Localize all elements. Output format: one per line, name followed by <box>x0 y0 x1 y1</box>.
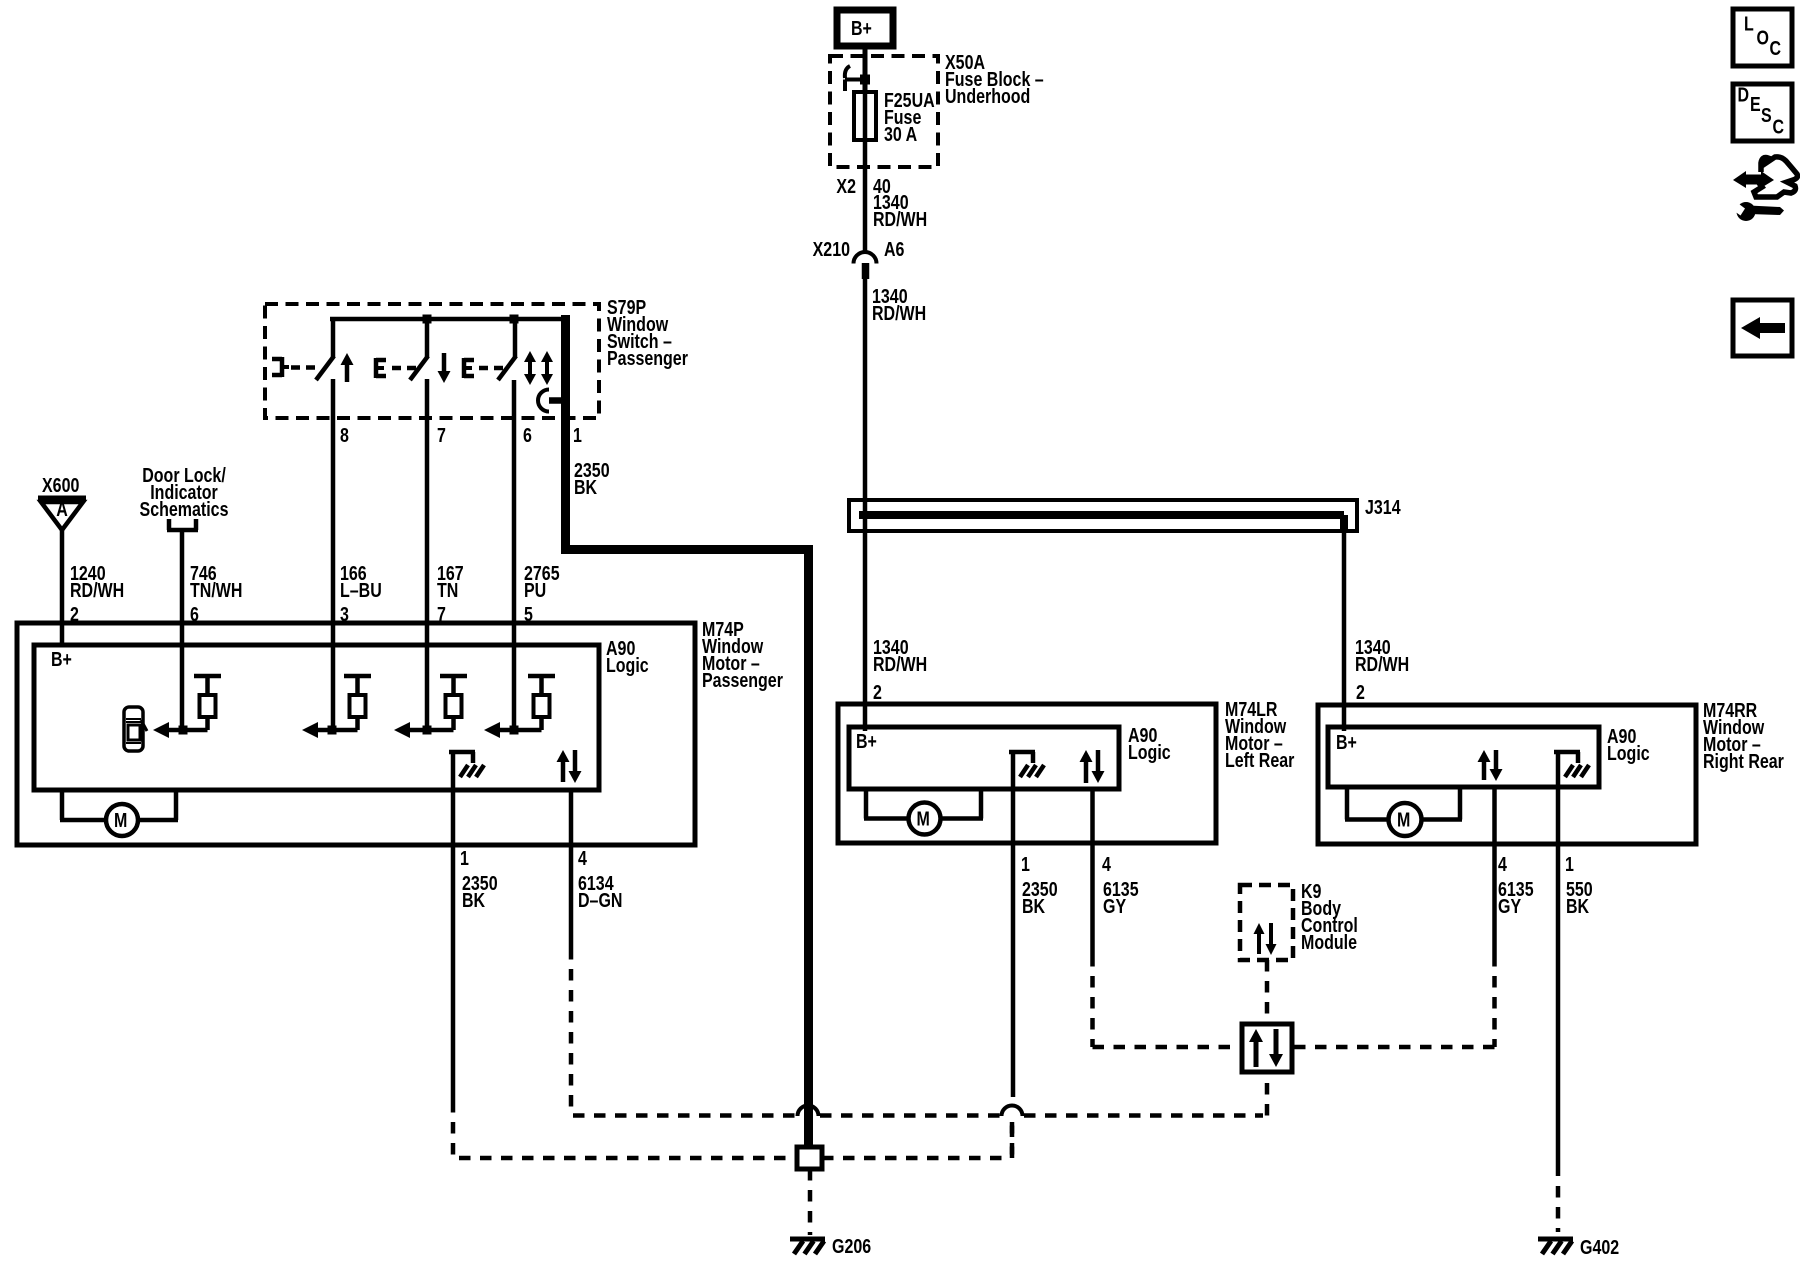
svg-text:RD/WH: RD/WH <box>872 302 926 324</box>
svg-text:4: 4 <box>578 847 587 869</box>
svg-text:1: 1 <box>1565 853 1574 875</box>
svg-text:G206: G206 <box>832 1235 871 1257</box>
svg-text:A: A <box>56 498 68 520</box>
svg-text:GY: GY <box>1498 895 1521 917</box>
svg-text:X2: X2 <box>836 175 856 197</box>
svg-text:Logic: Logic <box>1607 742 1650 764</box>
svg-text:2: 2 <box>1356 681 1365 703</box>
svg-text:J314: J314 <box>1365 496 1401 518</box>
svg-text:C: C <box>1773 116 1785 138</box>
svg-text:B+: B+ <box>851 17 872 39</box>
svg-text:M: M <box>917 808 930 830</box>
svg-text:TN: TN <box>437 579 458 601</box>
svg-text:B+: B+ <box>1336 731 1357 753</box>
svg-text:30 A: 30 A <box>884 123 917 145</box>
svg-text:1: 1 <box>460 847 469 869</box>
svg-text:PU: PU <box>524 579 546 601</box>
svg-text:8: 8 <box>340 424 349 446</box>
svg-text:Right Rear: Right Rear <box>1703 750 1784 772</box>
svg-text:C: C <box>1770 37 1782 59</box>
svg-text:Passenger: Passenger <box>607 347 688 369</box>
svg-text:M: M <box>1397 809 1410 831</box>
svg-text:Underhood: Underhood <box>945 85 1030 107</box>
svg-text:RD/WH: RD/WH <box>873 653 927 675</box>
svg-text:BK: BK <box>1566 895 1589 917</box>
svg-text:L–BU: L–BU <box>340 579 382 601</box>
svg-text:4: 4 <box>1498 853 1507 875</box>
svg-text:S: S <box>1761 104 1772 126</box>
svg-text:RD/WH: RD/WH <box>70 579 124 601</box>
svg-text:Left Rear: Left Rear <box>1225 749 1294 771</box>
svg-text:Module: Module <box>1301 931 1357 953</box>
svg-text:RD/WH: RD/WH <box>1355 653 1409 675</box>
svg-text:G402: G402 <box>1580 1236 1619 1258</box>
svg-text:Schematics: Schematics <box>140 498 229 520</box>
svg-text:Logic: Logic <box>1128 741 1171 763</box>
svg-text:Passenger: Passenger <box>702 669 783 691</box>
svg-text:GY: GY <box>1103 895 1126 917</box>
svg-text:2: 2 <box>873 681 882 703</box>
svg-text:4: 4 <box>1102 853 1111 875</box>
svg-text:1: 1 <box>1021 853 1030 875</box>
svg-text:M: M <box>114 809 127 831</box>
svg-text:L: L <box>1744 13 1754 35</box>
svg-text:BK: BK <box>462 889 485 911</box>
svg-text:X210: X210 <box>813 238 850 260</box>
svg-text:D: D <box>1738 84 1750 106</box>
svg-text:BK: BK <box>574 476 597 498</box>
svg-text:B+: B+ <box>51 648 72 670</box>
svg-text:TN/WH: TN/WH <box>190 579 242 601</box>
svg-text:E: E <box>1750 93 1761 115</box>
svg-text:7: 7 <box>437 424 446 446</box>
svg-text:O: O <box>1757 27 1769 49</box>
svg-text:6: 6 <box>523 424 532 446</box>
svg-text:B+: B+ <box>856 730 877 752</box>
svg-text:A6: A6 <box>884 238 904 260</box>
svg-text:Logic: Logic <box>606 654 649 676</box>
svg-text:RD/WH: RD/WH <box>873 208 927 230</box>
svg-text:X600: X600 <box>42 474 79 496</box>
svg-text:BK: BK <box>1022 895 1045 917</box>
svg-text:1: 1 <box>573 424 582 446</box>
svg-text:D–GN: D–GN <box>578 889 622 911</box>
